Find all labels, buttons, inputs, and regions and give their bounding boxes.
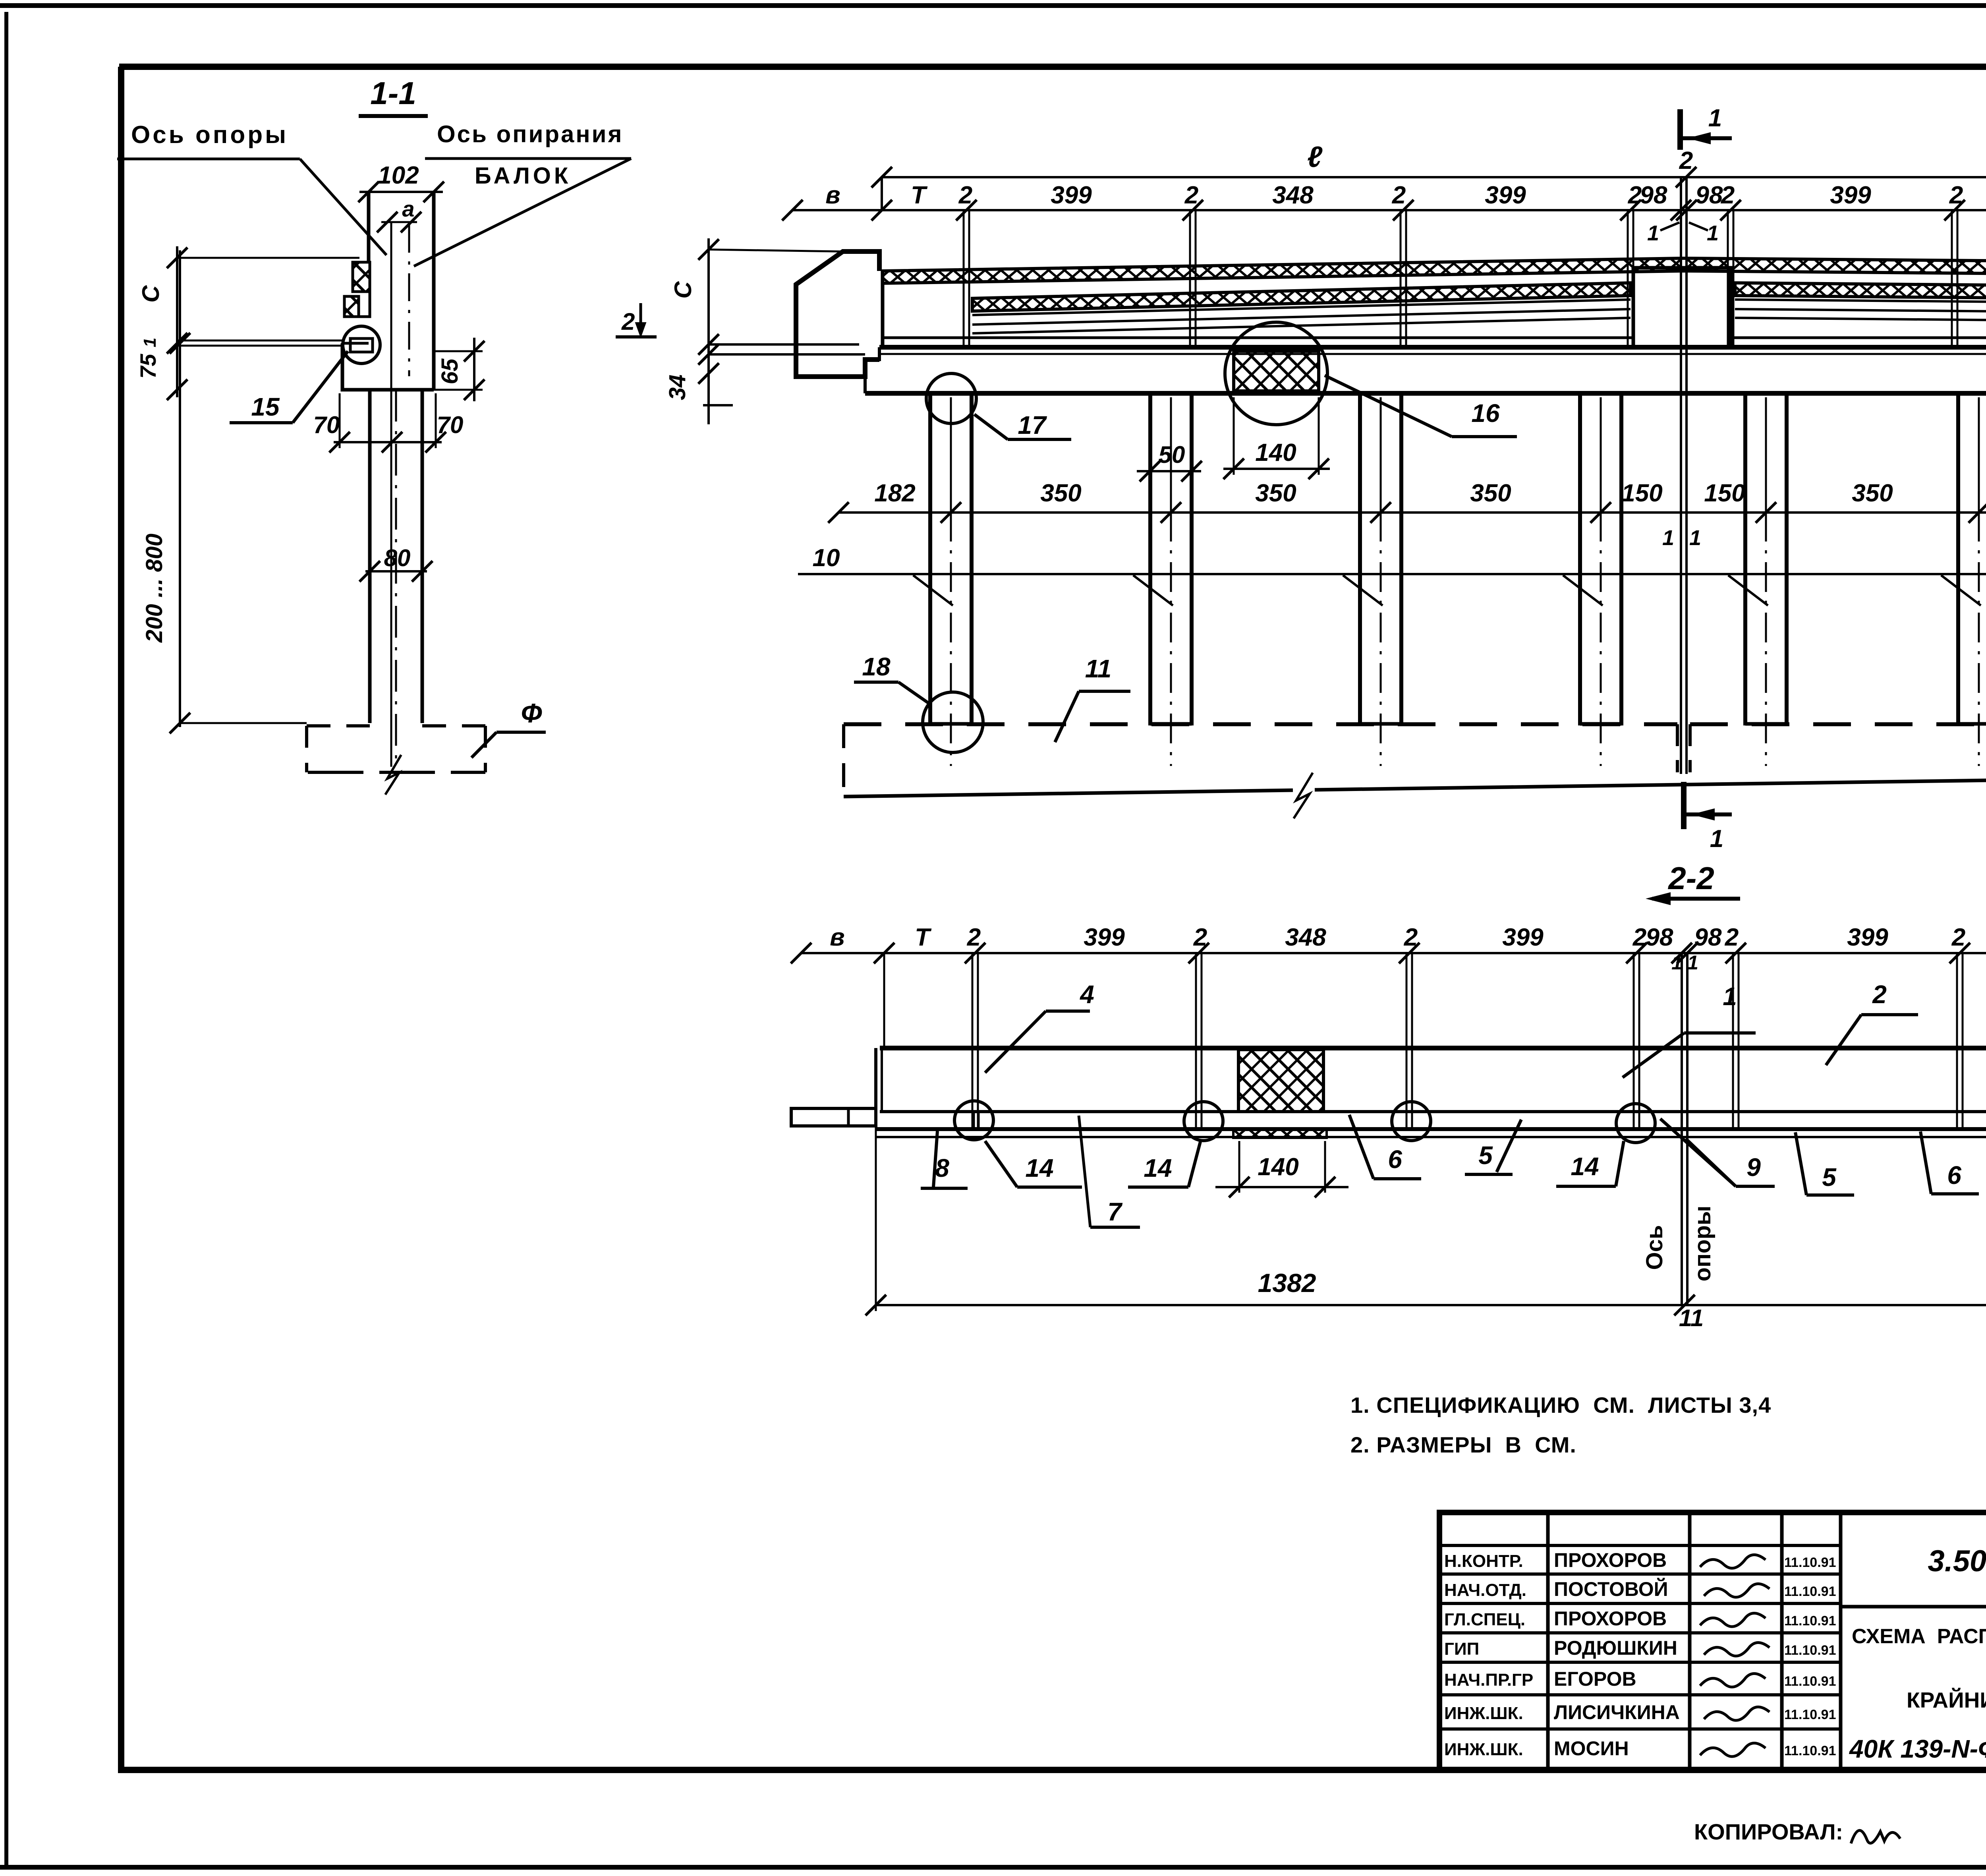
svg-text:Ось: Ось [1642, 1225, 1667, 1270]
svg-text:350: 350 [1040, 480, 1081, 507]
svg-text:ПРОХОРОВ: ПРОХОРОВ [1554, 1607, 1667, 1630]
svg-text:a: a [402, 196, 414, 221]
top hor line from C-dim [177, 257, 359, 259]
svg-text:КОПИРОВАЛ:: КОПИРОВАЛ: [1694, 1819, 1843, 1844]
centre diaphragm box [1633, 268, 1731, 347]
beam top at dim [369, 191, 434, 193]
foundation dashed line right [1690, 722, 1986, 726]
svg-text:C: C [137, 285, 164, 303]
ground tick at pile x3476 [1343, 575, 1383, 605]
svg-text:15: 15 [251, 393, 280, 421]
2-2 left slab edge double [874, 1048, 877, 1112]
cap top level line double [177, 340, 342, 342]
cut mark 1 bottom vertical [1681, 782, 1687, 829]
svg-text:399: 399 [1847, 924, 1888, 951]
svg-text:1: 1 [1708, 104, 1722, 132]
deck joint lines x4357 [1727, 210, 1729, 345]
title row 2 signature [1704, 1584, 1770, 1597]
svg-text:2: 2 [1725, 924, 1739, 951]
elevation top dim ticks [782, 200, 803, 220]
svg-text:11: 11 [1679, 1305, 1704, 1331]
pile 1-1 left line [368, 390, 372, 723]
cap bottom line [865, 391, 1986, 396]
svg-text:399: 399 [1485, 182, 1526, 209]
svg-text:2. РАЗМЕРЫ В СМ.: 2. РАЗМЕРЫ В СМ. [1350, 1432, 1576, 1457]
title row 1 signature [1700, 1555, 1766, 1568]
svg-text:14: 14 [1025, 1154, 1053, 1182]
cap left end [865, 347, 879, 393]
2-2 left wing plate [791, 1108, 876, 1126]
svg-text:1: 1 [1710, 825, 1723, 853]
svg-text:2: 2 [1632, 924, 1646, 951]
svg-text:опоры: опоры [1690, 1206, 1716, 1282]
bearing step outline [344, 292, 370, 317]
title block row line 4 [1439, 1631, 1841, 1634]
deck top hatched strip [883, 258, 1986, 283]
pile at x4982 axis [1978, 397, 1980, 512]
svg-text:14: 14 [1571, 1152, 1599, 1181]
pile at x3476 edges [1358, 393, 1362, 725]
dim 65 ext lines [434, 350, 483, 352]
label 15 leader [230, 421, 293, 424]
2-2 ext line at T boundary [883, 953, 885, 1047]
pile at x2394 axis [950, 397, 952, 512]
support axis line [390, 222, 392, 767]
beam soffit line right [1731, 337, 1986, 339]
2-2 joint lines x4934 [1956, 953, 1958, 1128]
svg-text:1: 1 [1723, 982, 1737, 1011]
bearing detail hatched block lower [344, 296, 359, 317]
deck left end edge [881, 271, 885, 347]
title block column line x4634 [1839, 1512, 1843, 1767]
detail circle 15 [343, 326, 380, 364]
bearing axis dash-dot [408, 225, 410, 376]
title block outer box [1439, 1512, 1986, 1770]
dim a line [381, 221, 417, 223]
title row 4 signature [1704, 1642, 1770, 1656]
svg-text:ПРОХОРОВ: ПРОХОРОВ [1554, 1549, 1667, 1571]
svg-text:РОДЮШКИН: РОДЮШКИН [1554, 1637, 1677, 1659]
title row 5 signature [1700, 1673, 1766, 1687]
detail circle 16 [1225, 322, 1327, 425]
svg-text:11.10.91: 11.10.91 [1784, 1707, 1836, 1722]
svg-text:в: в [830, 924, 844, 951]
title block column line x4254 [1688, 1512, 1692, 1767]
pile at x4446 axis [1765, 397, 1767, 512]
title row 3 signature [1700, 1613, 1766, 1627]
foundation centre dashed edges [1676, 724, 1679, 772]
2-2 centre axis pair [1681, 953, 1683, 1305]
svg-text:1. СПЕЦИФИКАЦИЮ СМ. ЛИСТЫ 3,: 1. СПЕЦИФИКАЦИЮ СМ. ЛИСТЫ 3,4 [1350, 1392, 1771, 1418]
dim 70 ext lines [339, 393, 341, 448]
svg-text:50: 50 [1159, 441, 1185, 468]
svg-text:2-2: 2-2 [1667, 861, 1714, 896]
svg-text:2: 2 [621, 308, 635, 335]
ground tick at pile x2394 [913, 575, 953, 605]
deck joint lines x4921 [1951, 210, 1953, 345]
svg-text:2: 2 [1184, 182, 1198, 209]
svg-text:98: 98 [1640, 182, 1667, 209]
svg-text:98: 98 [1696, 182, 1723, 209]
svg-text:9: 9 [1746, 1153, 1761, 1182]
foundation top level line [180, 722, 307, 724]
title block row line 5 [1439, 1661, 1841, 1664]
svg-text:399: 399 [1084, 924, 1125, 951]
svg-text:5: 5 [1478, 1141, 1493, 1170]
svg-text:2: 2 [1679, 147, 1693, 174]
svg-text:350: 350 [1255, 480, 1296, 507]
svg-text:98: 98 [1694, 924, 1722, 951]
svg-text:399: 399 [1051, 182, 1092, 209]
pile 1-1 right line [421, 390, 424, 723]
title row 6 signature [1704, 1707, 1770, 1720]
2-2 joint lines x4120 [1633, 953, 1635, 1128]
svg-text:6: 6 [1388, 1145, 1402, 1174]
cut mark 1 top bar [1680, 136, 1732, 140]
cap top inner line [879, 353, 1986, 355]
svg-text:1: 1 [1647, 221, 1659, 245]
svg-text:102: 102 [378, 162, 419, 189]
svg-text:БАЛОК: БАЛОК [475, 163, 571, 189]
beam rect left edge [367, 192, 371, 262]
svg-text:18: 18 [862, 652, 891, 681]
pad inside circle [350, 338, 373, 352]
svg-text:ИНЖ.ШК.: ИНЖ.ШК. [1444, 1704, 1523, 1723]
2-2 strip line 2 [876, 1136, 1986, 1138]
deck joint lines x4105 [1627, 210, 1629, 345]
left abutment outline [796, 251, 879, 377]
2-2 left end lower joint [973, 1112, 975, 1129]
svg-text:Т: Т [911, 182, 928, 209]
svg-text:2: 2 [1193, 924, 1207, 951]
2-2 band top line [880, 1046, 1986, 1050]
svg-text:Т: Т [915, 924, 932, 951]
svg-text:17: 17 [1018, 411, 1047, 439]
deck beam line left 2 [972, 309, 1631, 325]
svg-text:16: 16 [1471, 399, 1500, 427]
pile axes dim line [838, 511, 1986, 514]
2-2 detail circle at x3030 [1184, 1102, 1223, 1141]
svg-text:Ось опирания: Ось опирания [437, 121, 624, 147]
svg-text:399: 399 [1502, 924, 1544, 951]
svg-text:11.10.91: 11.10.91 [1784, 1584, 1836, 1599]
svg-text:НАЧ.ОТД.: НАЧ.ОТД. [1444, 1580, 1526, 1600]
svg-text:14: 14 [1144, 1154, 1172, 1182]
pile at x2394 edges [928, 393, 932, 725]
svg-text:2: 2 [1951, 924, 1965, 951]
cap top line [879, 345, 1986, 350]
cap block 1-1 [342, 343, 434, 390]
deck beam line right 2 [1735, 309, 1986, 315]
centre joint pair lines [1680, 177, 1682, 774]
svg-text:2: 2 [958, 182, 972, 209]
svg-text:2: 2 [967, 924, 981, 951]
pile at x3476 axis [1380, 397, 1382, 512]
deck beam line left 3 [972, 318, 1631, 333]
svg-text:1: 1 [1687, 952, 1698, 974]
break mark on foundation 1-1 [385, 755, 401, 795]
title block row line 1 [1439, 1544, 1841, 1547]
svg-text:399: 399 [1830, 182, 1871, 209]
svg-text:40К 139-N-Ф; 40К 146-N-Ф: 40К 139-N-Ф; 40К 146-N-Ф [1849, 1735, 1986, 1763]
pile at x4982 edges [1956, 393, 1960, 725]
svg-text:ЕГОРОВ: ЕГОРОВ [1554, 1668, 1636, 1690]
detail circle 18 [923, 692, 983, 752]
svg-text:6: 6 [1947, 1161, 1961, 1189]
cut mark 1 bottom bar [1683, 812, 1732, 816]
label Ф leader [496, 731, 546, 734]
svg-text:ℓ: ℓ [1307, 140, 1323, 173]
pile at x4446 edges [1743, 393, 1747, 725]
dim line C vertical [176, 246, 178, 397]
svg-text:182: 182 [874, 480, 915, 507]
elevation ext line left T [881, 177, 883, 210]
title block row line 6 [1439, 1693, 1841, 1696]
svg-text:Ось опоры: Ось опоры [131, 121, 288, 149]
svg-text:350: 350 [1470, 480, 1511, 507]
ground tick at pile x4446 [1728, 575, 1768, 605]
deck beam line right 3 [1735, 318, 1986, 324]
svg-text:140: 140 [1255, 439, 1296, 466]
svg-text:7: 7 [1107, 1197, 1123, 1226]
2-2 hatched joint section left [1238, 1050, 1323, 1112]
sheet outer bottom border line [0, 1865, 1986, 1870]
ground tick at pile x2948 [1133, 575, 1173, 605]
2-2 joint lines x3018 [1195, 953, 1197, 1128]
svg-text:2: 2 [1721, 182, 1735, 209]
svg-text:2: 2 [1949, 182, 1963, 209]
svg-text:3.503. 1 - 100. 1 - 5: 3.503. 1 - 100. 1 - 5 [1928, 1544, 1986, 1578]
svg-text:70: 70 [437, 412, 464, 438]
foundation bottom line [844, 790, 1293, 797]
dim 102 line [359, 191, 443, 193]
svg-text:2: 2 [1404, 924, 1418, 951]
svg-text:11: 11 [1085, 654, 1111, 683]
svg-text:ГЛ.СПЕЦ.: ГЛ.СПЕЦ. [1444, 1610, 1525, 1629]
svg-text:70: 70 [313, 412, 340, 438]
pile at x2948 axis [1170, 397, 1172, 512]
svg-text:ИНЖ.ШК.: ИНЖ.ШК. [1444, 1740, 1523, 1759]
svg-text:НАЧ.ПР.ГР: НАЧ.ПР.ГР [1444, 1670, 1533, 1690]
svg-text:ЛИСИЧКИНА: ЛИСИЧКИНА [1554, 1701, 1680, 1723]
2-2 top dim ticks [791, 943, 811, 963]
svg-text:11.10.91: 11.10.91 [1784, 1743, 1836, 1758]
2-2 detail circle at x2452 [954, 1101, 993, 1140]
main top dim line elevation [792, 209, 1986, 211]
top band rule with page box [119, 64, 1986, 70]
foundation dashed box 1-1 [307, 724, 370, 727]
pile at x4030 axis [1600, 397, 1602, 512]
approach line top left [709, 249, 842, 251]
foundation left edge dashed [842, 724, 845, 797]
dim 1382 line [876, 1304, 1986, 1306]
dim line l top [882, 176, 1986, 178]
deck second hatched strip left [972, 283, 1631, 311]
svg-text:1: 1 [1707, 221, 1719, 245]
leader for Ось опоры [117, 158, 300, 161]
dim 65 line [473, 338, 475, 401]
beam rect right edge [432, 192, 436, 390]
ground tick at pile x4030 [1563, 575, 1603, 605]
svg-text:34: 34 [665, 375, 690, 400]
svg-text:65: 65 [437, 358, 463, 384]
svg-text:1-1: 1-1 [370, 75, 416, 111]
title block column line x4486 [1780, 1512, 1784, 1767]
svg-text:200 ... 800: 200 ... 800 [141, 534, 167, 643]
dim 80 line [365, 570, 427, 572]
svg-text:11.10.91: 11.10.91 [1784, 1613, 1836, 1628]
svg-text:348: 348 [1285, 924, 1326, 951]
deck joint lines x3533 [1400, 210, 1402, 345]
deck joint lines x2433 [963, 210, 965, 345]
detail circle 17 [926, 373, 976, 424]
svg-text:11.10.91: 11.10.91 [1784, 1643, 1836, 1658]
svg-text:в: в [825, 182, 840, 209]
2-2 slab bottom line [880, 1110, 1986, 1113]
svg-text:1382: 1382 [1258, 1268, 1316, 1298]
title block row line 3 [1439, 1602, 1841, 1605]
approach slab double line left [709, 343, 859, 346]
title block column line x3897 [1546, 1512, 1550, 1767]
deck beam line left 1 [972, 300, 1631, 315]
svg-text:4: 4 [1079, 980, 1094, 1009]
svg-text:1: 1 [1689, 526, 1701, 550]
svg-text:C: C [670, 281, 696, 299]
svg-text:5: 5 [1822, 1163, 1837, 1191]
2-2 detail circle at x4118 [1616, 1104, 1655, 1143]
svg-text:150: 150 [1621, 480, 1662, 507]
2-2 detail circle at x3553 [1392, 1102, 1431, 1141]
svg-text:Н.КОНТР.: Н.КОНТР. [1444, 1551, 1523, 1571]
break mark foundation left [1294, 773, 1313, 818]
svg-text:2: 2 [1872, 980, 1887, 1009]
svg-text:11.10.91: 11.10.91 [1784, 1555, 1836, 1570]
title block row line 7 [1439, 1727, 1841, 1731]
svg-text:140: 140 [1258, 1153, 1298, 1181]
svg-text:КРАЙНИХ ОПОР: КРАЙНИХ ОПОР [1907, 1687, 1986, 1712]
2-2 strip line 1 [876, 1127, 1986, 1131]
dim vertical C 34 left [707, 238, 710, 424]
svg-text:150: 150 [1704, 480, 1745, 507]
svg-text:Ф: Ф [521, 698, 542, 728]
svg-text:ПОСТОВОЙ: ПОСТОВОЙ [1554, 1578, 1668, 1600]
dim 70 line [334, 441, 442, 443]
2-2 joint lines x4370 [1732, 953, 1734, 1128]
cut mark 1 top vertical [1677, 109, 1683, 150]
svg-text:1: 1 [1662, 526, 1674, 550]
title row 7 signature [1700, 1743, 1766, 1756]
svg-text:МОСИН: МОСИН [1554, 1737, 1629, 1760]
deck joint lines x3003 [1189, 210, 1191, 345]
dim 200..800 line [179, 250, 181, 727]
cap cast-in-place hatched section left [1234, 351, 1319, 391]
deck second hatched strip right [1735, 283, 1986, 302]
2-2 joint lines x2455 [972, 953, 974, 1128]
foundation dashed line left [844, 722, 1677, 726]
title block row line 2 [1439, 1572, 1841, 1576]
ground tick at pile x4982 [1941, 575, 1981, 605]
ground line 10 [798, 573, 1986, 575]
leader for Ось опирания [425, 157, 631, 160]
svg-text:ГИП: ГИП [1444, 1639, 1479, 1659]
2-2 dim ext line left [875, 1128, 877, 1311]
svg-text:98: 98 [1646, 924, 1673, 951]
svg-text:80: 80 [384, 545, 411, 571]
svg-text:8: 8 [935, 1154, 949, 1182]
bearing detail hatched block upper [353, 262, 370, 292]
svg-text:348: 348 [1272, 182, 1314, 209]
beam soffit line left [883, 337, 1633, 339]
title block mid divider [1841, 1605, 1986, 1609]
pile 1-1 axis dash-dot [395, 390, 397, 767]
svg-text:75: 75 [135, 354, 160, 379]
svg-text:1: 1 [140, 338, 160, 347]
pile at x4030 edges [1578, 393, 1582, 725]
sheet outer left border line [4, 12, 8, 1867]
sheet outer top border line [0, 3, 1986, 8]
svg-text:10: 10 [813, 544, 840, 572]
pile at x2948 edges [1148, 393, 1152, 725]
2-2 joint lines x3548 [1406, 953, 1408, 1128]
svg-text:2: 2 [1392, 182, 1406, 209]
svg-text:11.10.91: 11.10.91 [1784, 1674, 1836, 1689]
deck beam line right 1 [1735, 300, 1986, 306]
dim line top 2-2 [801, 952, 1986, 954]
svg-text:350: 350 [1852, 480, 1893, 507]
svg-text:СХЕМА РАСПОЛОЖЕНИЯ ЭЛЕМЕНТОВ: СХЕМА РАСПОЛОЖЕНИЯ ЭЛЕМЕНТОВ [1852, 1625, 1986, 1648]
